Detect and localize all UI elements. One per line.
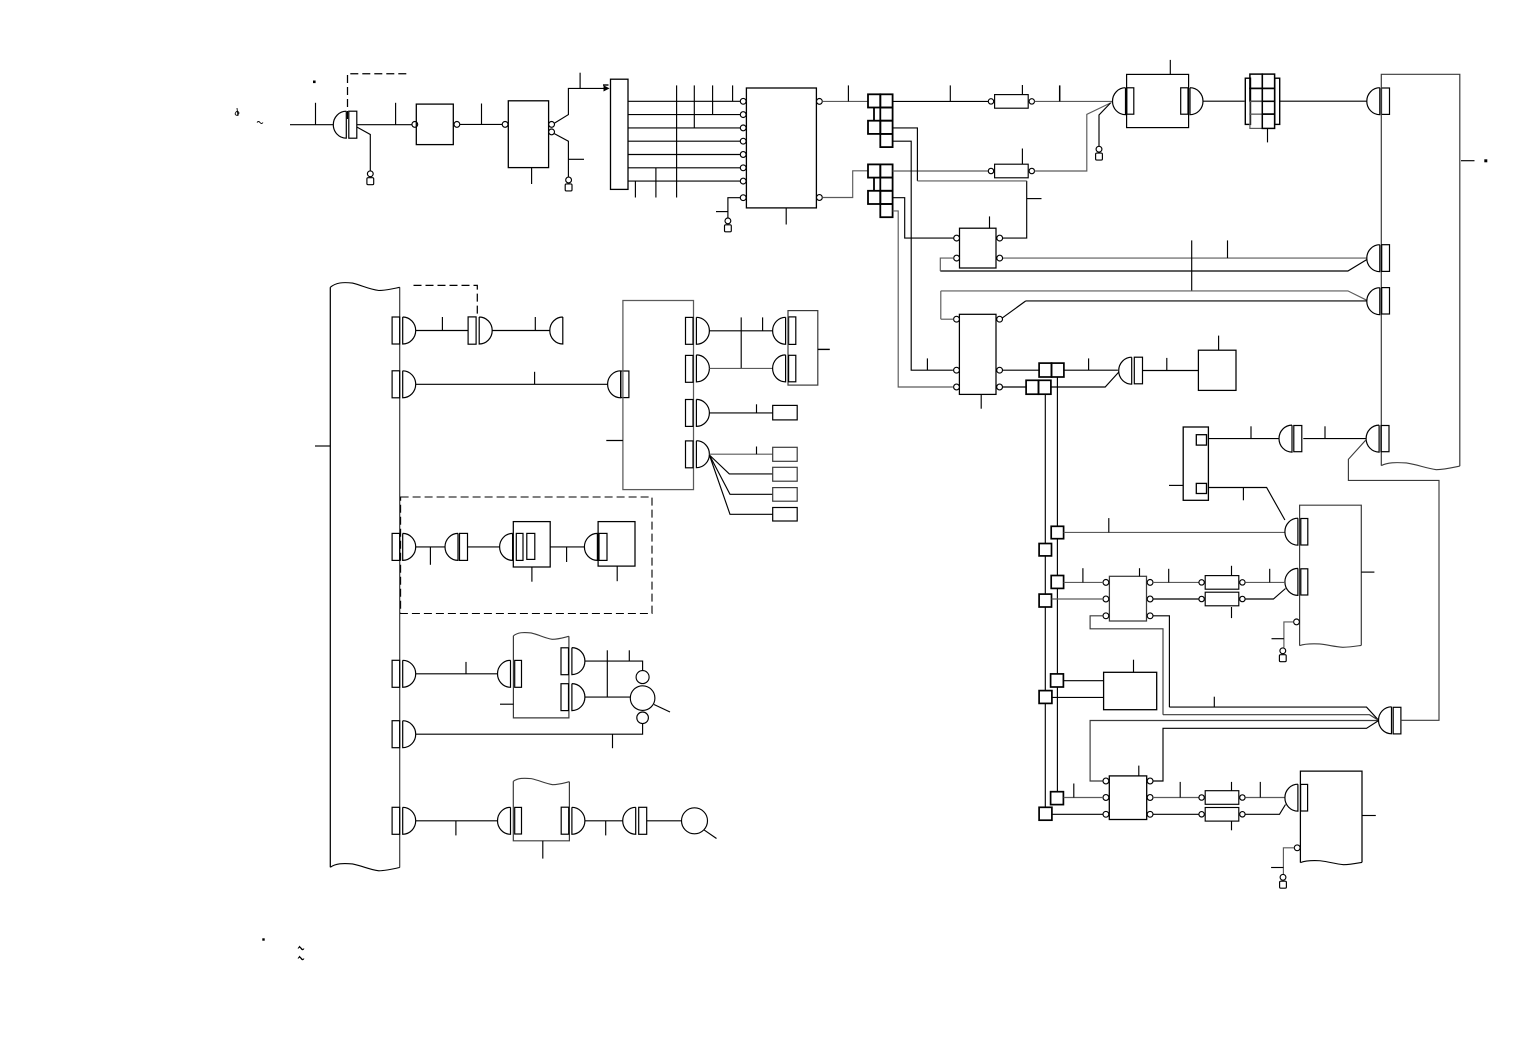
- U10 port Q1: [686, 317, 710, 344]
- wire G11 out: [647, 820, 682, 822]
- rail square A3: [1051, 674, 1064, 687]
- wire tick: [1088, 358, 1090, 370]
- rail square B4: [1039, 807, 1052, 820]
- U10 port Q4: [686, 441, 710, 468]
- big register box U6: [1381, 74, 1460, 469]
- ground terminator T4: [1096, 146, 1103, 160]
- ground terminator T1: [367, 171, 374, 185]
- wire tick: [1073, 784, 1075, 798]
- box U16: [1183, 427, 1208, 500]
- bus port P5: [392, 721, 416, 748]
- wire tick: [756, 447, 758, 455]
- pin bubble: [412, 122, 418, 128]
- pin bubble: [502, 122, 508, 128]
- rail square B1: [1039, 544, 1051, 556]
- feedback receiver G14: [1366, 425, 1389, 452]
- connector cluster J2: [868, 164, 893, 217]
- U8 bubbles: [954, 316, 1003, 390]
- receiver G7: [500, 533, 513, 560]
- square pair J4: [1039, 363, 1064, 377]
- wire U18 out1: [1153, 581, 1202, 583]
- wire Q4: [709, 453, 772, 455]
- wire tick: [441, 317, 443, 331]
- fan wire c: [709, 455, 772, 514]
- wire Q1: [709, 330, 772, 332]
- wire J3 to tall box: [1280, 100, 1367, 102]
- U4 output bubble B: [817, 195, 823, 201]
- wire tick: [1027, 198, 1042, 200]
- U4 bottom stub: [785, 208, 787, 225]
- pll box U12: [513, 522, 550, 567]
- bus lines U3 to U4: [628, 101, 740, 181]
- wire J2r4 to U8: [893, 211, 953, 387]
- U7 top stub: [989, 216, 991, 228]
- wire U8 out diag: [1003, 301, 1026, 318]
- U2 bottom stub: [531, 168, 533, 184]
- pad tail: [704, 830, 717, 839]
- bus port P6: [392, 807, 416, 834]
- wire U16b diag: [1208, 488, 1285, 521]
- wire U8 bot out: [1003, 386, 1027, 388]
- wire Q2: [709, 367, 772, 369]
- receiver G10: [498, 807, 522, 834]
- wire G13 out: [1303, 438, 1366, 440]
- tiny squiggle 2: [298, 956, 304, 960]
- U17 bubble: [1294, 619, 1300, 625]
- U14 left tick: [500, 703, 513, 705]
- wire tick: [1272, 638, 1284, 640]
- wire pin8: [728, 198, 740, 218]
- wire U1-U2: [460, 123, 502, 125]
- tiny squiggle 1: [298, 946, 304, 950]
- wire J5 diag to G3: [1052, 372, 1120, 388]
- U20 top stub: [1138, 766, 1140, 776]
- wire G1 output: [357, 124, 412, 126]
- stray dot: [262, 938, 264, 940]
- repeater G4: [468, 317, 492, 344]
- U17 port G12: [1285, 518, 1308, 545]
- vertical rail B: [1044, 394, 1046, 807]
- wire U7 left-bottom: [940, 258, 953, 271]
- stacked connector J3: [1245, 74, 1279, 128]
- mux tall box U3: [611, 79, 629, 189]
- wire B2 to U18: [1052, 598, 1104, 600]
- wire tick: [1242, 488, 1244, 501]
- wire G2 to terminator: [1099, 103, 1111, 146]
- U9 top stub: [1218, 336, 1220, 351]
- wire U2 lower to terminator: [554, 134, 568, 177]
- varactor stack small top: [636, 671, 649, 684]
- wire B4 to U20: [1052, 813, 1103, 815]
- wire tick: [1271, 867, 1283, 869]
- U11 port2: [773, 355, 796, 382]
- wire R6 diag to G17: [1245, 805, 1285, 815]
- bus vertical stub: [676, 85, 678, 197]
- U15 bottom stub: [542, 841, 544, 859]
- repeater G13: [1279, 425, 1302, 452]
- U12 bottom stub: [531, 567, 533, 582]
- U7 bubbles: [954, 235, 1003, 261]
- bus vertical stub: [634, 181, 636, 197]
- mid box U17 (torn bottom): [1300, 505, 1362, 647]
- wire tick: [534, 317, 536, 331]
- fan wire b: [709, 455, 772, 494]
- resistor R3: [1199, 576, 1245, 590]
- ground terminator T3: [725, 218, 732, 232]
- tall box port pair2: [1367, 288, 1390, 315]
- dashed box top-left: [348, 74, 408, 119]
- wire G4 out: [492, 330, 550, 332]
- wire tick: [1227, 240, 1229, 258]
- feedback wire up: [1348, 440, 1439, 721]
- J3 bottom stub: [1267, 128, 1269, 142]
- vertical rail A: [1056, 377, 1058, 791]
- wire tick: [756, 404, 758, 413]
- wire P1: [416, 330, 469, 332]
- wire bubble to term: [1284, 622, 1294, 648]
- wire long pair2b: [1026, 300, 1367, 302]
- wire P2: [416, 383, 608, 385]
- varactor tail: [654, 705, 670, 713]
- wire U5 to J3: [1203, 100, 1245, 102]
- wire into U8 top-left: [941, 291, 954, 319]
- dashed group box: [401, 497, 652, 614]
- mem cell M1: [773, 405, 798, 420]
- wire tick: [1231, 566, 1233, 576]
- wire tick: [429, 547, 431, 565]
- sequencer IC U8: [959, 314, 996, 394]
- junction dot: [313, 81, 316, 84]
- wire tick: [716, 211, 728, 213]
- U10 port Q2: [686, 355, 710, 382]
- resistor R4: [1199, 592, 1245, 606]
- wire R4 diag to G15: [1245, 589, 1285, 600]
- wire tick: [1108, 518, 1110, 532]
- wire U18 in3 to L2: [1090, 616, 1163, 715]
- U6 right stub: [1461, 160, 1475, 162]
- mem cell M2: [773, 447, 798, 461]
- wire tick: [1191, 240, 1193, 291]
- wire G3 to U9: [1143, 370, 1199, 372]
- ground terminator T2: [565, 177, 572, 191]
- wire tick long: [606, 650, 608, 697]
- wire L3: [1090, 721, 1378, 782]
- resistor R1: [988, 95, 1034, 109]
- wire R3 to G15: [1245, 581, 1285, 583]
- wire P5: [416, 724, 643, 735]
- U17 right tick: [1361, 571, 1374, 573]
- wire tick: [740, 317, 742, 368]
- fan wire a: [709, 455, 772, 474]
- delay box U1: [416, 104, 453, 145]
- connector cluster J1: [868, 94, 893, 147]
- wire tick: [1168, 569, 1170, 583]
- wire U14p2: [585, 696, 630, 698]
- wire L4: [1153, 721, 1379, 781]
- bus left tick: [315, 445, 330, 447]
- wire J1r3 vert: [893, 128, 918, 181]
- U4 input bubbles: [740, 98, 746, 184]
- net label tilde: [257, 122, 263, 124]
- wire tick: [1231, 821, 1233, 830]
- pin bubble: [454, 122, 460, 128]
- wire B3 to U19: [1052, 696, 1104, 698]
- wire U7 out top: [1003, 181, 1027, 238]
- U13 bottom stub: [616, 566, 618, 581]
- receiver G8: [584, 533, 607, 560]
- wire U20 out2: [1153, 813, 1202, 815]
- wire U2 to MUX with arrow: [554, 85, 609, 123]
- receiver G9: [498, 660, 522, 687]
- wire P6: [416, 820, 500, 822]
- mem cell M4: [773, 488, 798, 502]
- wire tick: [1259, 782, 1261, 798]
- wire J2r3 to U7: [893, 198, 954, 238]
- receiver gate G2: [1113, 88, 1134, 115]
- wire Q3: [709, 412, 772, 414]
- receiver box U11: [788, 311, 818, 386]
- bus vertical stub: [655, 168, 657, 198]
- resistor R5: [1199, 791, 1245, 805]
- dot: [1484, 159, 1487, 162]
- wire J4 to G3: [1064, 369, 1118, 371]
- bus vertical stub: [732, 85, 734, 101]
- wire tick: [1231, 782, 1233, 791]
- U16 square b: [1196, 483, 1206, 493]
- wire tick: [949, 85, 951, 101]
- wire tick: [1166, 358, 1168, 371]
- receiver G5: [550, 317, 563, 344]
- latch IC U4: [746, 88, 816, 208]
- U5 top stub: [1169, 60, 1171, 75]
- wire tick: [1269, 569, 1271, 583]
- box U9: [1198, 350, 1236, 390]
- wire to terminator: [357, 127, 371, 171]
- bus port P4: [392, 660, 416, 687]
- mem cell M3: [773, 467, 798, 481]
- wire U18 out3 to L1: [1153, 616, 1169, 707]
- buffer gate G1: [333, 111, 356, 138]
- U16 left tick: [1169, 484, 1183, 486]
- ground terminator T5: [1279, 648, 1286, 662]
- wire tick: [566, 547, 568, 562]
- wire A3 to U19: [1063, 680, 1103, 682]
- wire tick: [1231, 607, 1233, 618]
- wire U20 out1: [1153, 797, 1202, 799]
- U17 port G15: [1285, 568, 1308, 595]
- wire U8 mid out: [1003, 369, 1040, 371]
- wire J1r4 to U8: [893, 141, 953, 370]
- bottom box U21 (torn bottom): [1300, 771, 1362, 865]
- wire A2 to U18: [1064, 581, 1103, 583]
- receiver G11: [623, 807, 647, 834]
- wire bubble to term: [1283, 848, 1294, 874]
- wire P4: [416, 673, 500, 675]
- wire R2 to G2 lower: [1035, 103, 1112, 172]
- varactor stack big: [630, 686, 655, 711]
- dashed link: [414, 285, 478, 316]
- register box U5: [1127, 74, 1189, 127]
- wire tick: [481, 104, 483, 125]
- net label phi (clock input): [235, 108, 239, 116]
- U10 left tick: [606, 440, 623, 442]
- U18 top stub: [1139, 568, 1141, 576]
- sub box U15 (torn top): [513, 778, 569, 841]
- IC U19: [1104, 672, 1157, 709]
- U4 pin8 bubble: [740, 195, 746, 201]
- wire U18 out2: [1153, 598, 1202, 600]
- U18 bubbles: [1103, 580, 1153, 619]
- wire tick: [1324, 426, 1326, 438]
- mem cell M5: [773, 508, 798, 522]
- wire tick: [847, 85, 849, 101]
- wire long grey: [1003, 257, 1367, 259]
- wire U16a: [1208, 438, 1279, 440]
- rail square A2: [1051, 576, 1063, 589]
- pin bubble: [549, 122, 555, 128]
- U21 right tick: [1362, 815, 1376, 817]
- wire U12 out: [550, 546, 584, 548]
- U10 port Q3: [686, 399, 710, 426]
- wire tick: [1021, 85, 1023, 95]
- bus vertical stub: [693, 85, 695, 128]
- resistor R6: [1199, 808, 1245, 822]
- U14 port1: [561, 648, 585, 675]
- wire tick: [315, 103, 317, 125]
- wire U14p1: [585, 661, 643, 671]
- square pair J5: [1026, 380, 1051, 394]
- U5 output port: [1181, 88, 1203, 115]
- rail square B2: [1039, 594, 1051, 607]
- wire tick: [612, 734, 614, 748]
- U8 bottom stub: [980, 394, 982, 408]
- wire tick: [1082, 568, 1084, 582]
- bus port P3: [392, 533, 416, 560]
- receiver box U11 port1: [773, 317, 796, 345]
- wire J1 to R1: [893, 100, 991, 102]
- wire stub above: [579, 73, 581, 89]
- U21 bubble: [1294, 845, 1300, 851]
- rail square A4: [1051, 792, 1064, 805]
- varactor stack small bottom: [637, 712, 649, 724]
- interface box U10: [623, 301, 694, 490]
- bus port P2: [392, 371, 416, 398]
- wire tick: [465, 662, 467, 674]
- U20 bubbles: [1103, 778, 1153, 817]
- wire long black: [940, 260, 1367, 272]
- tall box input port: [1367, 88, 1390, 115]
- output pad circle: [682, 808, 708, 834]
- wire R1 to G2: [1035, 100, 1113, 102]
- pin bubble: [549, 129, 555, 135]
- wire tick: [1213, 697, 1215, 707]
- wire tick: [605, 821, 607, 836]
- wire tick: [395, 103, 397, 125]
- U19 top stub: [1133, 660, 1135, 673]
- converge gate G16: [1379, 707, 1401, 734]
- control IC U7: [960, 228, 997, 268]
- wire tick: [926, 358, 928, 370]
- merge gate G3: [1119, 357, 1143, 384]
- wire G6 to G7: [468, 546, 500, 548]
- wire U15 out: [585, 820, 623, 822]
- bus bar (torn edges): [330, 283, 399, 871]
- wire R5 to G17: [1245, 797, 1285, 799]
- sub box U14 (torn top): [513, 633, 569, 718]
- wire A4 to U20: [1064, 797, 1103, 799]
- IC U18: [1109, 576, 1146, 621]
- receiver G6: [445, 533, 468, 560]
- U15 port: [561, 807, 585, 834]
- wire tick: [1179, 782, 1181, 798]
- wire tick: [534, 372, 536, 385]
- wire P3: [416, 546, 446, 548]
- IC U20: [1109, 776, 1146, 820]
- wire clock input: [290, 124, 333, 126]
- bus port P1: [392, 317, 416, 344]
- wire J1r3 long: [917, 180, 1026, 182]
- U11 output stub: [818, 348, 830, 350]
- receiver into big box: [608, 371, 629, 398]
- wire tick: [1021, 149, 1023, 165]
- wire tick: [1059, 85, 1061, 101]
- wire tick: [568, 158, 584, 160]
- driver box U2: [508, 101, 548, 168]
- wire tick: [628, 650, 630, 661]
- wire A1 to G12: [1064, 531, 1285, 533]
- wire J2 to R2: [893, 170, 991, 172]
- tall box port pair1: [1367, 245, 1390, 272]
- wire tick: [762, 317, 764, 330]
- rail square A1: [1051, 526, 1063, 538]
- rail square B3: [1039, 691, 1052, 704]
- U16 square a: [1196, 435, 1206, 445]
- wire tick: [455, 821, 457, 836]
- wire tick: [1250, 426, 1252, 438]
- U4 output bubble A: [817, 99, 823, 105]
- wire L2: [1163, 715, 1379, 721]
- wire U4B to J2: [822, 171, 868, 198]
- U14 port2: [561, 684, 585, 711]
- wire long pair2a: [941, 291, 1367, 300]
- resistor R2: [988, 164, 1034, 178]
- wire L1: [1169, 707, 1378, 720]
- ground terminator T6: [1280, 874, 1287, 888]
- wire U4A to J1: [822, 100, 868, 102]
- bus vertical stub: [712, 85, 714, 114]
- osc box U13: [598, 522, 635, 567]
- U21 port G17: [1285, 784, 1308, 811]
